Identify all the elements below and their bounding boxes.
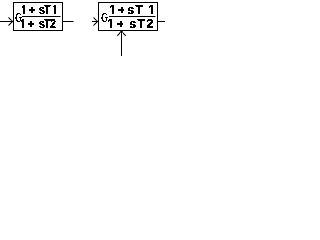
arrowhead into block 2 bbox=[94, 18, 98, 26]
wire input stub to block 1 bbox=[0, 21, 13, 23]
fraction bar (block 1) bbox=[22, 16, 61, 18]
wire from bottom into block 2 bbox=[121, 31, 123, 57]
block G1 box bbox=[14, 3, 63, 31]
arrowhead up into block 2 bottom bbox=[118, 31, 126, 36]
wire input stub to block 2 bbox=[92, 21, 98, 23]
denominator 1 + sT2 (block 2) bbox=[108, 19, 153, 28]
background bbox=[0, 0, 165, 56]
numerator 1 + sT1 (block 1) bbox=[22, 5, 56, 14]
label G (block 1) bbox=[15, 13, 22, 22]
block G2 box bbox=[99, 3, 158, 31]
label G (block 2) bbox=[101, 13, 108, 22]
fraction bar (block 2) bbox=[109, 16, 156, 18]
wire output stub of block 1 bbox=[63, 21, 74, 23]
numerator 1 + sT1 (block 2) bbox=[110, 5, 153, 14]
wire output stub of block 2 bbox=[158, 21, 166, 23]
arrowhead into block 1 bbox=[9, 18, 13, 26]
denominator 1 + sT2 (block 1) bbox=[21, 19, 56, 28]
